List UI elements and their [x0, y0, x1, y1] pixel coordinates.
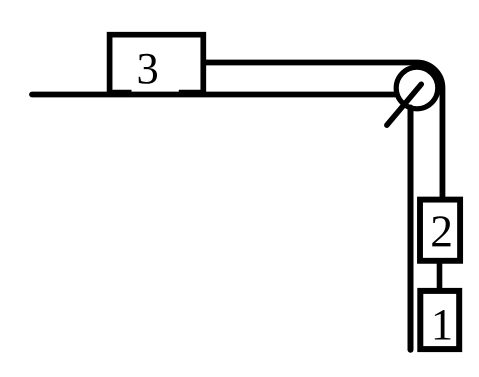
block 2: [420, 200, 460, 261]
svg-text:1: 1: [431, 299, 453, 349]
block 3 right foot: [179, 90, 206, 96]
connector rope between block 2 and block 1: [437, 259, 443, 292]
block 3 (mass on table): [110, 35, 204, 97]
pulley wheel: [396, 67, 438, 109]
svg-text:2: 2: [430, 206, 453, 257]
block 3 left foot: [107, 90, 132, 96]
rope over pulley: [204, 63, 442, 200]
block 1: [420, 291, 459, 349]
table surface: [32, 92, 395, 98]
hanging rope left: [408, 108, 414, 350]
svg-text:3: 3: [136, 43, 158, 93]
pulley support arm: [387, 84, 422, 125]
